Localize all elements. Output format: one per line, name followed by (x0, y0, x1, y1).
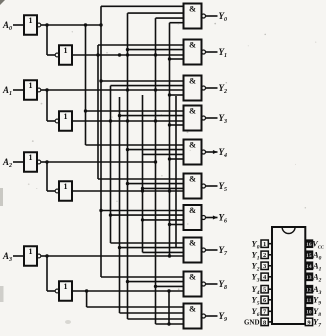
svg-text:&: & (189, 205, 196, 215)
svg-text:10: 10 (306, 310, 312, 316)
svg-text:&: & (189, 238, 196, 248)
svg-text:1: 1 (29, 153, 33, 162)
svg-text:&: & (189, 40, 196, 50)
svg-text:11: 11 (306, 298, 311, 304)
svg-text:13: 13 (306, 275, 312, 281)
svg-text:&: & (189, 272, 196, 282)
svg-text:1: 1 (64, 112, 68, 121)
svg-text:&: & (189, 4, 196, 14)
svg-text:&: & (189, 140, 196, 150)
svg-text:&: & (189, 174, 196, 184)
svg-text:1: 1 (29, 247, 33, 256)
svg-text:&: & (189, 76, 196, 86)
svg-text:1: 1 (64, 182, 68, 191)
svg-text:&: & (189, 304, 196, 314)
svg-text:1: 1 (64, 282, 68, 291)
svg-text:14: 14 (306, 264, 312, 270)
svg-text:&: & (189, 106, 196, 116)
svg-text:1: 1 (29, 81, 33, 90)
svg-text:16: 16 (306, 242, 312, 248)
svg-text:1: 1 (29, 16, 33, 25)
svg-text:2: 2 (263, 252, 266, 259)
svg-text:GND: GND (244, 319, 260, 327)
svg-text:1: 1 (263, 241, 266, 248)
svg-text:1: 1 (64, 46, 68, 55)
svg-text:15: 15 (306, 253, 312, 259)
svg-text:12: 12 (306, 287, 312, 293)
